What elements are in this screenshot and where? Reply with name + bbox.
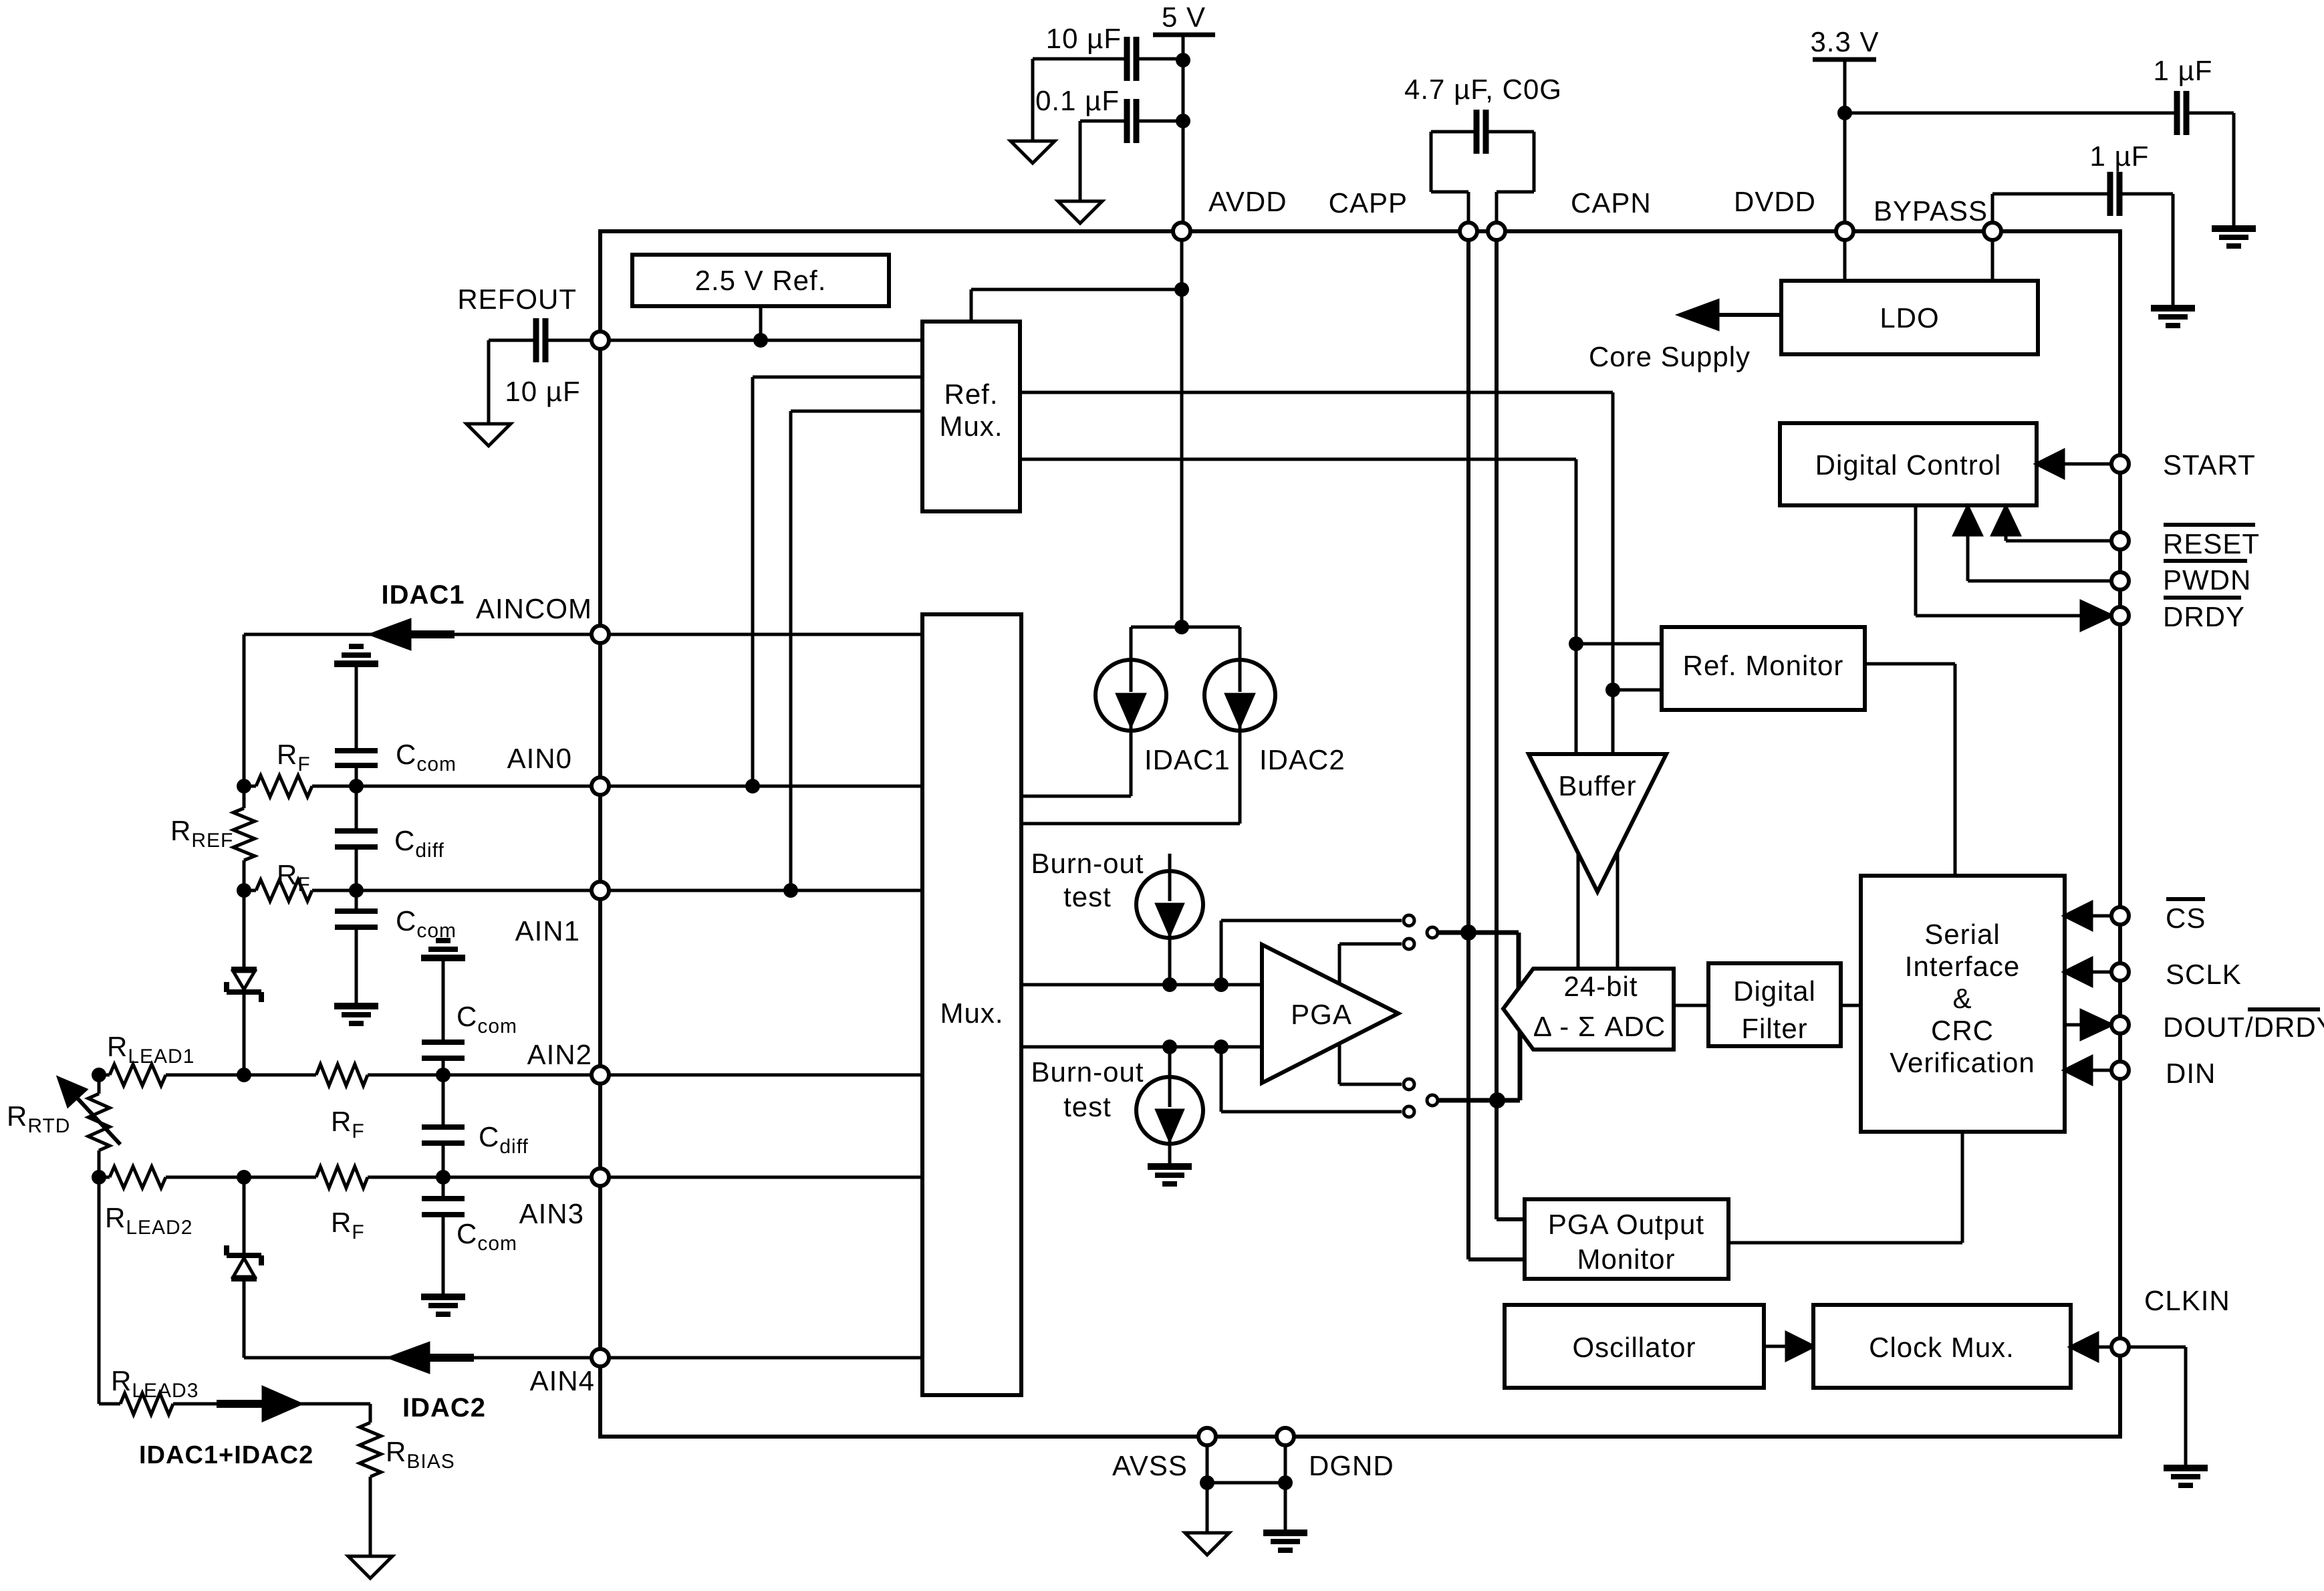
ground (analog) below C1 bbox=[1011, 141, 1055, 163]
ground (digital) CLKIN bbox=[2164, 1468, 2208, 1485]
capacitor C_com3 bbox=[422, 959, 517, 1075]
svg-text:CLKIN: CLKIN bbox=[2144, 1285, 2230, 1316]
junction dot CAPP switch bbox=[1460, 925, 1476, 941]
capacitor C5 1 uF bbox=[2090, 140, 2150, 216]
junction dot AIN2 cap bbox=[436, 1068, 450, 1082]
svg-text:24-bit: 24-bit bbox=[1563, 971, 1638, 1002]
IC U1 ADS1220 chip outline bbox=[600, 231, 2120, 1437]
current source IDAC2 bbox=[1204, 660, 1275, 731]
wire CLKIN input bbox=[2097, 1346, 2111, 1349]
svg-text:3.3 V: 3.3 V bbox=[1810, 26, 1879, 57]
pin PWDN bbox=[2111, 572, 2129, 590]
wire PGA bottom tap bbox=[1339, 1044, 1402, 1084]
svg-text:1 µF: 1 µF bbox=[2090, 140, 2150, 172]
wire PGA top tap bbox=[1339, 944, 1402, 983]
junction dot IDAC supply bbox=[1174, 620, 1189, 634]
wire AIN2 external bbox=[99, 1074, 592, 1077]
label AIN0 bbox=[507, 743, 572, 774]
svg-text:DOUT/DRDY: DOUT/DRDY bbox=[2163, 1011, 2324, 1043]
wire C5 to ground bbox=[2119, 194, 2173, 308]
label PWDN overline bbox=[2163, 561, 2251, 596]
label AVSS bbox=[1112, 1450, 1188, 1481]
block Digital Filter bbox=[1708, 963, 1841, 1046]
svg-text:Δ - Σ ADC: Δ - Σ ADC bbox=[1533, 1011, 1666, 1042]
svg-text:AIN2: AIN2 bbox=[527, 1039, 592, 1070]
pin CLKIN bbox=[2111, 1338, 2129, 1356]
wire SCLK input bbox=[2090, 971, 2111, 974]
arrow START into Digital Control bbox=[2037, 451, 2063, 477]
wire IDAC2 to Mux bbox=[1021, 731, 1240, 824]
resistor R_LEAD3 bbox=[111, 1365, 199, 1415]
ground (analog) below C6 bbox=[467, 424, 511, 446]
svg-text:IDAC1: IDAC1 bbox=[381, 580, 465, 610]
svg-text:IDAC2: IDAC2 bbox=[1259, 744, 1345, 775]
svg-text:AIN0: AIN0 bbox=[507, 743, 572, 774]
switch contact top A bbox=[1404, 915, 1414, 926]
wire AIN1 external bbox=[244, 889, 592, 892]
svg-text:Digital: Digital bbox=[1733, 975, 1816, 1007]
junction dot node 5V-C2 bbox=[1176, 114, 1190, 128]
svg-text:Monitor: Monitor bbox=[1577, 1243, 1675, 1275]
wire LDO core supply bbox=[1706, 313, 1781, 317]
svg-text:PGA Output: PGA Output bbox=[1548, 1209, 1704, 1240]
label CAPN bbox=[1571, 187, 1652, 219]
ground (bars) below C_com2 bbox=[334, 1006, 378, 1023]
wire Oscillator to Clock Mux bbox=[1764, 1345, 1788, 1348]
wire AIN0 line bbox=[600, 785, 922, 788]
wire AIN4 line bbox=[600, 1356, 922, 1360]
arrow DIN into Serial bbox=[2065, 1057, 2091, 1084]
junction dot AIN1 cap bbox=[349, 883, 364, 898]
pin RESET bbox=[2111, 532, 2129, 549]
ground (bars, inverted) above C_com1 bbox=[334, 646, 378, 664]
wire burn-out top to AINP bbox=[1168, 938, 1172, 985]
svg-text:&: & bbox=[1952, 983, 1972, 1014]
wire PWDN input bbox=[1968, 531, 2111, 581]
svg-text:CAPN: CAPN bbox=[1571, 187, 1652, 219]
svg-text:test: test bbox=[1063, 881, 1112, 912]
wire ADC to Digital Filter bbox=[1674, 1004, 1708, 1007]
svg-text:Buffer: Buffer bbox=[1558, 770, 1636, 802]
ground (analog) below R_BIAS bbox=[348, 1556, 392, 1578]
pin START bbox=[2111, 455, 2129, 473]
resistor R_F (AIN1) bbox=[256, 859, 312, 901]
arrow IDAC1+IDAC2 bbox=[263, 1388, 300, 1420]
block Mux bbox=[922, 614, 1021, 1395]
pin DRDY bbox=[2111, 607, 2129, 624]
wire DIN input bbox=[2090, 1069, 2111, 1072]
label IDAC2 bold bbox=[402, 1393, 486, 1423]
label RESET overline bbox=[2163, 525, 2260, 560]
wire DRDY output bbox=[1916, 505, 2087, 616]
wire BYPASS to LDO bbox=[1991, 231, 1994, 281]
wire 3V3 to C4 bbox=[1845, 112, 2177, 115]
wire Ref Mux REFP out bbox=[1020, 392, 1613, 754]
junction dot AINN burn-out bbox=[1162, 1039, 1177, 1054]
pin AVDD bbox=[1173, 223, 1190, 240]
arrow SCLK into Serial bbox=[2065, 959, 2091, 985]
svg-text:test: test bbox=[1063, 1091, 1112, 1122]
svg-text:CRC: CRC bbox=[1931, 1015, 1994, 1046]
label IDAC2 bbox=[1259, 744, 1345, 775]
wire Ref Mux to AVDD bbox=[971, 289, 1182, 322]
pin CAPP bbox=[1460, 223, 1477, 240]
block Clock Mux bbox=[1813, 1305, 2071, 1388]
wire AINCOM external bbox=[244, 633, 592, 636]
wire CAPN switch line bbox=[1438, 1031, 1520, 1100]
wire AIN1 line bbox=[600, 889, 922, 892]
label CS overline bbox=[2166, 899, 2206, 934]
capacitor C_com4 bbox=[422, 1177, 517, 1297]
wire AIN3 line bbox=[600, 1176, 922, 1179]
wire START input bbox=[2063, 463, 2111, 466]
junction dot AINP burn-out bbox=[1162, 977, 1177, 992]
ground (digital) below C4 bbox=[2212, 229, 2256, 246]
block Oscillator bbox=[1505, 1305, 1764, 1388]
junction dot REFP-monitor bbox=[1605, 683, 1620, 697]
label BYPASS bbox=[1874, 195, 1988, 227]
label DGND bbox=[1309, 1450, 1394, 1481]
arrow core supply bbox=[1680, 301, 1718, 329]
wire AINCOM down to AIN0 node bbox=[243, 634, 246, 786]
power rail 5 V bbox=[1153, 1, 1215, 231]
wire Ref Monitor left upper bbox=[1576, 642, 1662, 646]
wire AVSS to ground bbox=[1206, 1437, 1209, 1533]
svg-text:Serial: Serial bbox=[1924, 919, 2000, 950]
svg-text:Mux.: Mux. bbox=[939, 410, 1003, 442]
label REFOUT bbox=[457, 283, 577, 315]
wire DVDD to LDO bbox=[1843, 231, 1847, 281]
ground (analog) AVSS bbox=[1185, 1533, 1229, 1555]
junction dot AINP sense bbox=[1214, 977, 1229, 992]
svg-text:5 V: 5 V bbox=[1162, 1, 1206, 33]
arrow CS into Serial bbox=[2065, 902, 2091, 929]
svg-text:Filter: Filter bbox=[1741, 1013, 1807, 1044]
wire Ref Mux input from AIN1 bbox=[791, 411, 922, 890]
junction dot CAPN switch bbox=[1489, 1092, 1505, 1108]
svg-text:IDAC1: IDAC1 bbox=[1144, 744, 1231, 775]
wire AINP line bbox=[1021, 983, 1262, 987]
wire Digital Filter to Serial Interface bbox=[1841, 1004, 1861, 1007]
wire AINN sense down bbox=[1221, 1047, 1402, 1112]
arrow IDAC2 out bbox=[390, 1344, 428, 1372]
op-amp Buffer bbox=[1529, 754, 1666, 892]
svg-text:DVDD: DVDD bbox=[1734, 186, 1816, 217]
pin REFOUT bbox=[592, 332, 609, 349]
wire RTD to RLEAD3 bbox=[99, 1177, 120, 1404]
label Core Supply bbox=[1589, 341, 1751, 372]
label Burn-out test bottom bbox=[1031, 1056, 1144, 1122]
svg-text:DGND: DGND bbox=[1309, 1450, 1394, 1481]
svg-text:Verification: Verification bbox=[1890, 1047, 2035, 1078]
svg-text:DRDY: DRDY bbox=[2163, 601, 2245, 632]
junction dot AVDD-RefMux bbox=[1174, 282, 1189, 297]
svg-text:AIN3: AIN3 bbox=[519, 1198, 584, 1229]
pin DVDD bbox=[1836, 223, 1853, 240]
wire AIN2 line bbox=[600, 1074, 922, 1077]
switch contact bottom A bbox=[1404, 1079, 1414, 1090]
label AIN1 bbox=[515, 915, 580, 947]
svg-text:LDO: LDO bbox=[1880, 302, 1939, 334]
switch common top bbox=[1427, 927, 1438, 938]
svg-text:RESET: RESET bbox=[2163, 528, 2260, 560]
switch contact bottom B bbox=[1404, 1106, 1414, 1117]
wire CLKIN external bbox=[2129, 1347, 2186, 1468]
pin CAPN bbox=[1488, 223, 1505, 240]
capacitor C_diff2 bbox=[422, 1075, 529, 1177]
ground (digital) below burn-out bbox=[1148, 1167, 1192, 1184]
wire C6 to ground bbox=[487, 340, 491, 424]
pin AVSS bbox=[1198, 1428, 1216, 1445]
wire AINN line bbox=[1021, 1046, 1262, 1049]
block Digital Control bbox=[1780, 423, 2037, 505]
svg-text:Mux.: Mux. bbox=[940, 997, 1003, 1029]
svg-text:DIN: DIN bbox=[2166, 1058, 2216, 1089]
block 24-bit delta-sigma ADC bbox=[1503, 969, 1674, 1050]
capacitor C4 1 uF bbox=[2154, 55, 2213, 135]
wire AVSS-DGND link bbox=[1207, 1481, 1285, 1485]
svg-text:10 µF: 10 µF bbox=[1046, 23, 1122, 54]
resistor R_LEAD1 bbox=[107, 1031, 195, 1086]
svg-text:Ref.: Ref. bbox=[944, 378, 998, 410]
wire Ref Monitor left lower bbox=[1613, 689, 1662, 692]
wire C1 to ground bbox=[1031, 59, 1035, 141]
label Burn-out test top bbox=[1031, 848, 1144, 912]
label AVDD bbox=[1208, 186, 1287, 217]
block Ref Mux bbox=[922, 322, 1020, 511]
wire CAPP internal bbox=[1468, 231, 1525, 1259]
svg-text:IDAC2: IDAC2 bbox=[402, 1393, 486, 1423]
wire Buffer out right bbox=[1616, 852, 1620, 969]
resistor R_F (AIN0) bbox=[256, 739, 312, 797]
wire AIN0 external bbox=[244, 785, 592, 788]
wire AVDD internal bbox=[1180, 231, 1184, 627]
wire REFOUT line bbox=[600, 339, 922, 342]
arrow PWDN into Digital Control bbox=[1954, 507, 1981, 535]
junction dot DGND bbox=[1278, 1475, 1293, 1490]
wire DOUT output bbox=[2065, 1023, 2086, 1027]
arrow DOUT to pin bbox=[2081, 1011, 2111, 1039]
block LDO bbox=[1781, 281, 2038, 354]
diode D2 zener bbox=[227, 1177, 261, 1358]
wire BYPASS to C5 bbox=[1992, 194, 2110, 231]
pin AIN0 bbox=[592, 777, 609, 795]
svg-text:PWDN: PWDN bbox=[2163, 564, 2251, 596]
ground (digital) DGND bbox=[1263, 1533, 1307, 1550]
pin AIN1 bbox=[592, 882, 609, 899]
pin DOUT/DRDY bbox=[2111, 1016, 2129, 1033]
ground (bars) below C_com4 bbox=[421, 1297, 465, 1314]
label DIN bbox=[2166, 1058, 2216, 1089]
wire Buffer out left bbox=[1577, 853, 1580, 969]
wire DGND to ground bbox=[1284, 1437, 1287, 1533]
wire AIN3 external bbox=[99, 1176, 592, 1179]
wire AINCOM line bbox=[600, 633, 922, 636]
svg-text:2.5 V Ref.: 2.5 V Ref. bbox=[695, 265, 827, 296]
label START bbox=[2163, 449, 2256, 481]
junction dot AIN0 sense bbox=[745, 779, 760, 793]
label AIN4 bbox=[530, 1365, 595, 1396]
label CLKIN bbox=[2144, 1285, 2230, 1316]
label CAPP bbox=[1329, 187, 1408, 219]
label AIN2 bbox=[527, 1039, 592, 1070]
wire 2.5V Ref to REFOUT line bbox=[759, 306, 763, 340]
svg-text:SCLK: SCLK bbox=[2166, 959, 2242, 990]
capacitor C1 10 uF bbox=[1033, 23, 1178, 81]
arrow DRDY to pin bbox=[2081, 602, 2111, 630]
wire Ref Monitor to Serial Interface bbox=[1865, 664, 1955, 876]
block Ref Monitor bbox=[1662, 627, 1865, 710]
svg-text:1 µF: 1 µF bbox=[2154, 55, 2213, 86]
svg-text:AINCOM: AINCOM bbox=[476, 593, 592, 624]
wire C2 to ground bbox=[1079, 121, 1082, 201]
capacitor C3 4.7 uF C0G bbox=[1404, 74, 1562, 231]
svg-text:Clock Mux.: Clock Mux. bbox=[1869, 1332, 2015, 1363]
wire CAPN internal bbox=[1497, 231, 1525, 1219]
label DOUT/DRDY overline bbox=[2163, 1009, 2324, 1043]
label SCLK bbox=[2166, 959, 2242, 990]
junction dot AIN2 left bbox=[237, 1068, 251, 1082]
label DRDY overline bbox=[2163, 598, 2245, 632]
label AINCOM bbox=[476, 593, 592, 624]
label AIN3 bbox=[519, 1198, 584, 1229]
pin DIN bbox=[2111, 1062, 2129, 1079]
junction dot node 5V-C1 bbox=[1176, 53, 1190, 68]
svg-text:Digital Control: Digital Control bbox=[1815, 449, 2002, 481]
capacitor C_com2 bbox=[335, 890, 457, 1006]
switch common bottom bbox=[1427, 1095, 1438, 1106]
pin AIN2 bbox=[592, 1066, 609, 1084]
pin AIN4 bbox=[592, 1349, 609, 1366]
resistor R_LEAD2 bbox=[105, 1167, 192, 1239]
svg-text:Ref. Monitor: Ref. Monitor bbox=[1683, 650, 1844, 681]
svg-text:AVDD: AVDD bbox=[1208, 186, 1287, 217]
arrow IDAC1 out bbox=[372, 620, 410, 648]
wire AIN4 external bbox=[244, 1356, 592, 1360]
switch contact top B bbox=[1404, 939, 1414, 949]
svg-text:0.1 µF: 0.1 µF bbox=[1035, 85, 1120, 116]
svg-text:PGA: PGA bbox=[1291, 999, 1352, 1030]
junction dot AIN1 left bbox=[237, 883, 251, 898]
pin DGND bbox=[1277, 1428, 1294, 1445]
resistor R_BIAS bbox=[360, 1404, 455, 1556]
arrow CLKIN into Clock Mux bbox=[2071, 1334, 2097, 1360]
junction dot RTD bottom bbox=[92, 1170, 106, 1185]
resistor R_RTD variable bbox=[7, 1075, 120, 1177]
junction dot AIN3 left bbox=[237, 1170, 251, 1185]
svg-text:CS: CS bbox=[2166, 902, 2206, 934]
junction dot AIN0 cap bbox=[349, 779, 364, 793]
wire Ref Mux REFN out bbox=[1020, 459, 1576, 754]
junction dot AIN0 left bbox=[237, 779, 251, 793]
current source burn-out bottom bbox=[1136, 1047, 1203, 1144]
svg-text:START: START bbox=[2163, 449, 2256, 481]
block Serial Interface and CRC Verification bbox=[1861, 876, 2065, 1132]
junction dot AIN1 sense bbox=[783, 883, 798, 898]
wire IDAC1 to Mux bbox=[1021, 731, 1131, 796]
svg-text:IDAC1+IDAC2: IDAC1+IDAC2 bbox=[139, 1441, 313, 1469]
wire IDAC tree bbox=[1131, 627, 1240, 660]
wire CAPP switch line bbox=[1438, 933, 1519, 988]
wire RLEAD3 to RBIAS bbox=[173, 1402, 370, 1406]
arrow into Clock Mux bbox=[1787, 1333, 1813, 1360]
resistor R_F (AIN3) bbox=[316, 1167, 368, 1243]
wire CS input bbox=[2090, 914, 2111, 918]
junction dot RTD top bbox=[92, 1068, 106, 1082]
capacitor C2 0.1 uF bbox=[1035, 85, 1178, 143]
label IDAC1 bbox=[1144, 744, 1231, 775]
label DVDD bbox=[1734, 186, 1816, 217]
wire Serial to PGA Output Monitor bbox=[1728, 1132, 1962, 1243]
capacitor C_diff1 bbox=[335, 786, 444, 890]
wire Ref Mux input from AIN0 bbox=[753, 377, 922, 786]
wire AINP sense up bbox=[1221, 921, 1402, 985]
current source burn-out top bbox=[1136, 854, 1203, 938]
ground (digital) below C5 bbox=[2151, 308, 2195, 326]
junction dot AVSS bbox=[1200, 1475, 1214, 1490]
resistor R_REF bbox=[170, 786, 255, 890]
svg-text:Oscillator: Oscillator bbox=[1572, 1332, 1696, 1363]
svg-text:AIN4: AIN4 bbox=[530, 1365, 595, 1396]
block PGA Output Monitor bbox=[1525, 1199, 1728, 1279]
resistor R_F (AIN2) bbox=[316, 1064, 368, 1142]
capacitor C6 10 uF bbox=[489, 318, 592, 407]
junction dot node 3V3 bbox=[1837, 106, 1852, 120]
wire burn-out bottom to ground bbox=[1168, 1144, 1172, 1167]
svg-text:Interface: Interface bbox=[1905, 951, 2020, 982]
svg-text:Burn-out: Burn-out bbox=[1031, 1056, 1144, 1088]
svg-text:Core Supply: Core Supply bbox=[1589, 341, 1751, 372]
svg-text:4.7 µF, C0G: 4.7 µF, C0G bbox=[1404, 74, 1562, 105]
pin AIN3 bbox=[592, 1169, 609, 1186]
ground (bars, inverted) above C_com3 bbox=[421, 941, 465, 958]
svg-text:AIN1: AIN1 bbox=[515, 915, 580, 947]
current source IDAC1 bbox=[1095, 660, 1166, 731]
block 2.5 V Ref bbox=[632, 255, 889, 306]
label IDAC1 bold bbox=[381, 580, 465, 610]
wire RESET input bbox=[2006, 531, 2111, 541]
svg-text:Burn-out: Burn-out bbox=[1031, 848, 1144, 879]
pin BYPASS bbox=[1984, 223, 2001, 240]
junction dot AINN sense bbox=[1214, 1039, 1229, 1054]
svg-text:CAPP: CAPP bbox=[1329, 187, 1408, 219]
junction dot REFN-monitor bbox=[1569, 636, 1583, 651]
arrow RESET into Digital Control bbox=[1992, 507, 2019, 535]
wire C4 to ground bbox=[2186, 113, 2234, 229]
junction dot 2.5V Ref bbox=[753, 333, 768, 348]
svg-text:AVSS: AVSS bbox=[1112, 1450, 1188, 1481]
svg-text:10 µF: 10 µF bbox=[505, 376, 580, 407]
label IDAC1+IDAC2 bold bbox=[139, 1441, 313, 1469]
power rail 3.3 V bbox=[1810, 26, 1879, 231]
junction dot AIN3 cap bbox=[436, 1170, 450, 1185]
op-amp PGA bbox=[1262, 945, 1398, 1083]
capacitor C_com1 bbox=[335, 665, 457, 786]
ground (analog) below C2 bbox=[1058, 201, 1102, 223]
pin SCLK bbox=[2111, 963, 2129, 981]
svg-text:BYPASS: BYPASS bbox=[1874, 195, 1988, 227]
pin AINCOM bbox=[592, 626, 609, 643]
diode D1 zener bbox=[227, 890, 261, 1075]
pin CS bbox=[2111, 907, 2129, 925]
svg-text:REFOUT: REFOUT bbox=[457, 283, 577, 315]
